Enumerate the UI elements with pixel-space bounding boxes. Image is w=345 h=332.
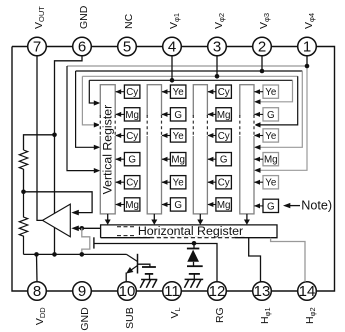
- svg-text:Ye: Ye: [265, 178, 277, 189]
- wire pin 1 drop to right feed g4: [258, 66, 307, 170]
- arrow bus into col4 g2: [254, 122, 261, 127]
- svg-text:Note): Note): [301, 198, 332, 212]
- svg-text:G: G: [267, 201, 275, 212]
- label Vphi3 pin 2: [258, 13, 271, 29]
- svg-text:Cy: Cy: [218, 131, 230, 142]
- cell stack3 row2 Mg: [207, 108, 231, 121]
- wire C1 to ground: [149, 274, 151, 280]
- pin 14: [298, 282, 317, 301]
- arrow bus into col1 g2: [94, 122, 101, 127]
- down arrow col4 to HR: [244, 214, 250, 225]
- wire pin6 GND down-left-down to bottom rail: [55, 56, 83, 255]
- wire R1 top tap: [24, 135, 55, 150]
- cell stack4 row3 Ye: [254, 129, 279, 142]
- wire bus right vertical g1: [258, 80, 293, 102]
- pin 5: [118, 37, 137, 56]
- svg-text:12: 12: [209, 283, 226, 300]
- label SUB pin 10: [124, 307, 136, 329]
- wire RG line from gate to pin 12: [94, 244, 217, 282]
- cell stack1 row6 Mg: [115, 198, 140, 211]
- cell stack1 row2 Mg: [115, 108, 140, 121]
- vertical register column 3: [193, 85, 207, 214]
- node junction R1/R2 divider: [21, 190, 26, 195]
- diode D1 cathode bar: [187, 248, 199, 250]
- pin 2: [253, 37, 272, 56]
- label VOUT pin 7: [33, 6, 46, 29]
- wire bus right vertical g2: [258, 76, 298, 125]
- svg-text:3: 3: [213, 39, 221, 56]
- svg-text:Mg: Mg: [217, 110, 231, 121]
- arrow bus into col1 g4: [94, 168, 101, 173]
- node pin4/L4: [170, 78, 175, 83]
- svg-text:GND: GND: [79, 307, 91, 331]
- svg-text:Ye: Ye: [265, 87, 277, 98]
- wire FD node to horizontal register: [78, 227, 101, 229]
- node junction rail/MOSFET source: [80, 252, 85, 257]
- wire bus L1 Vphi4 top: [67, 65, 307, 67]
- svg-text:G: G: [174, 110, 182, 121]
- wire bus L2 Vphi3 top: [76, 70, 303, 72]
- break band dashes col1: [100, 115, 254, 137]
- node junction rail/pin8: [34, 252, 39, 257]
- pin 13: [253, 282, 272, 301]
- cell stack2 row2 G: [162, 108, 186, 121]
- wire diode anode down: [193, 262, 195, 266]
- cell stack2 row6 G: [162, 198, 186, 211]
- wire bus left vertical Vphi3: [76, 71, 96, 147]
- arrow bus into col4 g3: [254, 145, 261, 150]
- svg-text:Vertical Register: Vertical Register: [101, 105, 115, 195]
- cell stack2 row3 Ye: [162, 129, 186, 142]
- svg-text:Ye: Ye: [173, 178, 185, 189]
- svg-text:RG: RG: [214, 307, 226, 323]
- cell stack4 row5 Ye: [254, 176, 279, 189]
- down arrow col1 to HR: [105, 214, 111, 225]
- svg-text:G: G: [267, 110, 275, 121]
- label VL pin 11: [169, 307, 182, 318]
- node junction GND/R1: [52, 133, 57, 138]
- pin 9: [73, 282, 92, 301]
- label Vphi1 pin 4: [168, 13, 181, 29]
- bottom supply rail: [24, 253, 127, 255]
- capacitor C2 plate 1: [187, 265, 203, 267]
- svg-text:9: 9: [78, 283, 86, 300]
- pin 11: [163, 282, 182, 301]
- svg-text:Mg: Mg: [125, 110, 139, 121]
- horizontal register dashed inner bottom: [117, 235, 245, 237]
- op-amp U1: [43, 204, 71, 237]
- label Vphi2 pin 3: [213, 13, 226, 29]
- svg-text:5: 5: [123, 39, 131, 56]
- transistor Q1 emitter arrowhead: [126, 267, 133, 274]
- svg-text:Ye: Ye: [265, 131, 277, 142]
- horizontal register box: [101, 225, 277, 238]
- wire Q1 collector: [138, 264, 150, 267]
- cell stack1 row3 Cy: [115, 129, 140, 142]
- svg-text:Horizontal Register: Horizontal Register: [138, 224, 243, 238]
- capacitor C2 plate 2: [189, 273, 200, 275]
- wire bus L3 Vphi2 top: [82, 75, 297, 77]
- cell stack4 row4 Mg: [254, 153, 279, 166]
- label RG pin 12: [214, 307, 226, 323]
- pin 12: [208, 282, 227, 301]
- transistor Q1 base lead: [127, 254, 138, 261]
- svg-text:Ye: Ye: [173, 131, 185, 142]
- svg-text:GND: GND: [78, 5, 90, 29]
- cell stack3 row4 G: [207, 153, 231, 166]
- arrow bus into col1 g3: [94, 145, 101, 150]
- transistor Q1 emitter: [129, 266, 138, 272]
- node pin2/L2: [260, 69, 265, 74]
- arrow into op-amp input 1: [71, 210, 79, 216]
- arrow bus into col4 g4: [254, 168, 261, 173]
- wire bus left vertical Vphi4: [67, 66, 96, 171]
- svg-text:13: 13: [254, 283, 271, 300]
- svg-text:10: 10: [119, 283, 136, 300]
- column 1 label: [101, 105, 115, 195]
- transistor Q1 base bar: [137, 254, 139, 274]
- cell stack1 row1 Cy: [115, 85, 140, 98]
- wire pin 2 stub: [261, 56, 263, 71]
- vertical register column 2: [147, 85, 161, 214]
- horizontal register label: [137, 226, 245, 236]
- wire bus left vertical Vphi2: [82, 76, 96, 125]
- wire pin7 to op-amp output: [37, 56, 43, 221]
- label GND pin 9: [79, 307, 91, 331]
- vertical register column 4: [240, 85, 254, 214]
- wire bus L4 Vphi1 top: [89, 79, 292, 81]
- wire pin 1 drop stub: [306, 56, 308, 66]
- node junction FD: [80, 226, 85, 231]
- label Vphi4 pin 1: [303, 13, 316, 29]
- node pin3/L3: [215, 74, 220, 79]
- wire pin 3 stub: [216, 56, 218, 77]
- svg-text:Ye: Ye: [173, 87, 185, 98]
- wire bus left vertical Vphi1: [89, 80, 96, 103]
- pin 3: [208, 37, 227, 56]
- cell stack2 row1 Ye: [162, 85, 186, 98]
- horizontal register dashed inner top: [117, 226, 245, 228]
- cell stack3 row6 Mg: [207, 198, 231, 211]
- svg-text:G: G: [128, 155, 136, 166]
- wire R1 bottom to node: [23, 169, 25, 192]
- svg-text:NC: NC: [123, 13, 135, 29]
- svg-text:Cy: Cy: [126, 87, 138, 98]
- cell stack4 row1 Ye: [254, 85, 279, 98]
- pin 10: [118, 282, 137, 301]
- svg-text:Mg: Mg: [171, 155, 185, 166]
- cell stack2 row5 Ye: [162, 176, 186, 189]
- pin 4: [163, 37, 182, 56]
- diode D1 triangle: [187, 250, 199, 262]
- label GND pin 6: [78, 5, 90, 29]
- transistor Q2 reset MOSFET channel: [82, 228, 90, 254]
- label VDD pin 8: [34, 307, 47, 325]
- wire HR to pin 13: [249, 238, 261, 282]
- arrow into op-amp input 2: [71, 226, 79, 232]
- svg-text:4: 4: [168, 39, 176, 56]
- svg-text:7: 7: [33, 39, 41, 56]
- svg-text:Cy: Cy: [218, 87, 230, 98]
- cell stack1 row4 G: [115, 153, 140, 166]
- cell stack1 row5 Cy: [115, 176, 140, 189]
- svg-text:Cy: Cy: [126, 131, 138, 142]
- down arrow col2 to HR: [151, 214, 157, 225]
- pin 7: [28, 37, 47, 56]
- vertical register column 1: [100, 85, 115, 214]
- resistor R2: [19, 192, 27, 255]
- cell stack4 row6 G: [254, 199, 279, 212]
- cell stack3 row3 Cy: [207, 129, 231, 142]
- capacitor C1 plate 2: [145, 273, 153, 275]
- svg-text:14: 14: [299, 283, 316, 300]
- ground symbol 2: [184, 279, 203, 287]
- pin 1: [298, 37, 317, 56]
- svg-text:Mg: Mg: [264, 155, 278, 166]
- wire HR to pin 14: [271, 238, 305, 282]
- wire rail to pin 8: [36, 254, 39, 281]
- pin 8: [28, 282, 47, 301]
- break cover masks: [99, 116, 255, 136]
- transistor Q2 gate plate: [93, 237, 95, 248]
- svg-text:Cy: Cy: [218, 178, 230, 189]
- cell stack3 row1 Cy: [207, 85, 231, 98]
- cell stack4 row2 G: [254, 108, 279, 121]
- label NC pin 5: [123, 13, 135, 29]
- down arrow col3 to HR: [197, 214, 203, 225]
- svg-text:2: 2: [258, 39, 266, 56]
- label Hphi2 pin 14: [304, 307, 317, 324]
- chip outline border: [12, 47, 335, 292]
- node pin1/L1: [305, 64, 310, 69]
- wire diode stub from RG line: [193, 243, 195, 248]
- wire pin 4 stub: [171, 56, 173, 81]
- svg-text:8: 8: [33, 283, 41, 300]
- ground symbol 1: [140, 280, 157, 288]
- node junction rail/GND line: [52, 252, 57, 257]
- node junction diode/RG: [192, 241, 197, 246]
- svg-text:Mg: Mg: [217, 200, 231, 211]
- cell stack2 row4 Mg: [162, 153, 186, 166]
- wire bus right vertical g3: [258, 71, 302, 147]
- wire C2 to ground: [193, 274, 195, 280]
- svg-text:Mg: Mg: [125, 200, 139, 211]
- wire emitter to pin 10: [125, 273, 127, 282]
- svg-text:G: G: [220, 155, 228, 166]
- label Hphi1 pin 13: [259, 307, 272, 324]
- resistor R1: [19, 150, 27, 169]
- svg-text:11: 11: [164, 283, 180, 300]
- svg-text:6: 6: [78, 39, 86, 56]
- capacitor C1 plate 1: [142, 266, 156, 268]
- svg-text:1: 1: [303, 39, 311, 56]
- cell stack3 row5 Cy: [207, 176, 231, 189]
- svg-text:G: G: [174, 200, 182, 211]
- arrow bus into col1 g1: [94, 100, 101, 105]
- pin 6: [73, 37, 92, 56]
- arrow bus into col4 g1: [254, 99, 261, 104]
- svg-text:Cy: Cy: [126, 178, 138, 189]
- wire divider tap to op-amp input 1: [24, 192, 93, 213]
- note arrow: [289, 205, 300, 207]
- svg-text:SUB: SUB: [124, 307, 136, 329]
